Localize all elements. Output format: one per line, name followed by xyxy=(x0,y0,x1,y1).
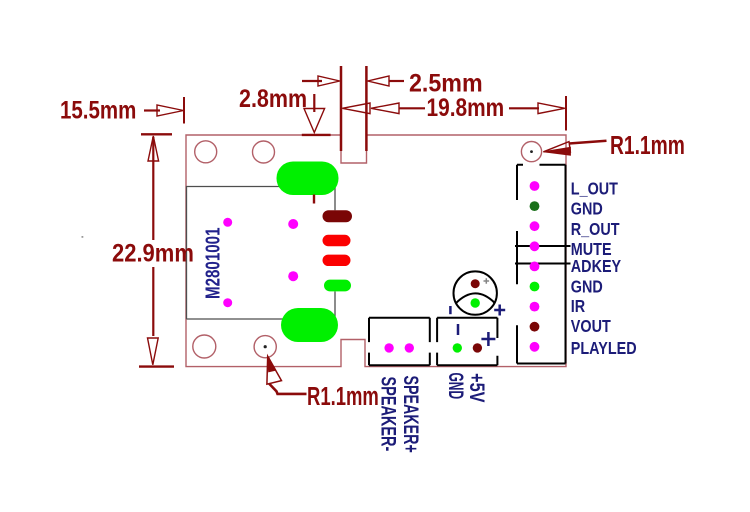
svg-text:19.8mm: 19.8mm xyxy=(427,93,505,121)
svg-text:2.8mm: 2.8mm xyxy=(239,85,307,113)
svg-text:22.9mm: 22.9mm xyxy=(112,239,194,267)
svg-text:R1.1mm: R1.1mm xyxy=(610,130,685,160)
svg-text:R1.1mm: R1.1mm xyxy=(307,382,379,411)
svg-text:GND: GND xyxy=(571,199,603,219)
svg-text:SPEAKER-: SPEAKER- xyxy=(377,377,400,452)
svg-text:15.5mm: 15.5mm xyxy=(60,96,136,124)
svg-text:M2801001: M2801001 xyxy=(201,227,224,299)
svg-text:+5V: +5V xyxy=(466,373,489,403)
svg-text:SPEAKER+: SPEAKER+ xyxy=(399,376,422,453)
svg-text:PLAYLED: PLAYLED xyxy=(571,339,637,359)
svg-text:GND: GND xyxy=(571,277,603,297)
svg-text:L_OUT: L_OUT xyxy=(571,179,618,199)
svg-text:ADKEY: ADKEY xyxy=(571,257,621,277)
svg-text:R_OUT: R_OUT xyxy=(571,219,620,239)
svg-text:VOUT: VOUT xyxy=(571,317,611,337)
svg-text:IR: IR xyxy=(571,297,586,317)
svg-text:GND: GND xyxy=(444,373,467,400)
